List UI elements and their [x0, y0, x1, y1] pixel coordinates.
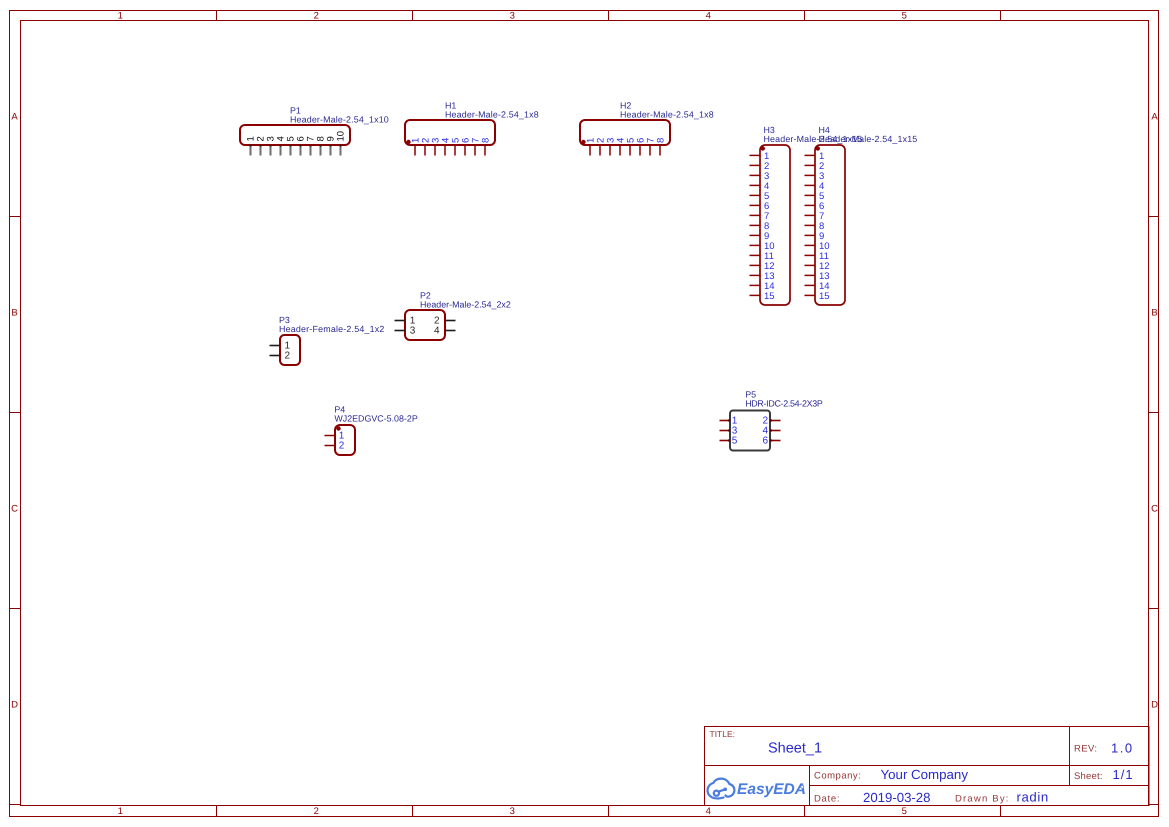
- pin 3 of H3: [750, 171, 770, 182]
- svg-text:C: C: [11, 504, 18, 515]
- svg-text:A: A: [11, 112, 18, 123]
- pin 1 of H4: [805, 151, 825, 162]
- pin 14 of H4: [805, 281, 830, 292]
- pin 10 of H3: [750, 241, 775, 252]
- pin 3 of H2: [605, 138, 616, 156]
- pin 9 of H3: [750, 231, 770, 242]
- pin 8 of H1: [480, 138, 491, 156]
- pin 8 of H4: [805, 221, 825, 232]
- pin 9 of H4: [805, 231, 825, 242]
- pin 2 of H2: [595, 138, 606, 156]
- pin 2 of H3: [750, 161, 770, 172]
- svg-text:15: 15: [764, 291, 775, 302]
- pin 7 of P1: [305, 136, 316, 155]
- pin 6 of P5: [762, 436, 780, 447]
- svg-text:WJ2EDGVC-5.08-2P: WJ2EDGVC-5.08-2P: [334, 414, 417, 424]
- pin 1 of H3: [750, 151, 770, 162]
- svg-text:4: 4: [706, 11, 711, 22]
- pin 1 of P4: [325, 431, 345, 442]
- svg-text:Header-Male-2.54_1x15: Header-Male-2.54_1x15: [819, 134, 918, 144]
- svg-text:Sheet:: Sheet:: [1074, 771, 1103, 782]
- connector H1 Header-Male-2.54_1x8: [405, 101, 539, 146]
- pin 6 of H4: [805, 201, 825, 212]
- svg-text:5: 5: [902, 806, 907, 817]
- svg-text:4: 4: [706, 806, 711, 817]
- pin 3 of H1: [430, 138, 441, 156]
- pin 9 of P1: [325, 136, 336, 155]
- connector P1 Header-Male-2.54_1x10: [240, 106, 389, 146]
- svg-text:4: 4: [434, 326, 440, 337]
- pin 2 of P1: [255, 136, 266, 155]
- pin 12 of H4: [805, 261, 830, 272]
- pin 4 of H2: [615, 138, 626, 156]
- pin 12 of H3: [750, 261, 775, 272]
- svg-text:3: 3: [410, 326, 416, 337]
- pin 8 of H2: [655, 138, 666, 156]
- svg-text:3: 3: [510, 11, 515, 22]
- pin 8 of P1: [315, 136, 326, 155]
- pin 5 of H3: [750, 191, 770, 202]
- pin 6 of H2: [635, 138, 646, 156]
- pin 5 of P5: [720, 436, 738, 447]
- connector H4 Header-Male-2.54_1x15: [815, 125, 917, 305]
- pin 13 of H4: [805, 271, 830, 282]
- svg-text:Sheet_1: Sheet_1: [768, 741, 822, 757]
- pin 5 of H4: [805, 191, 825, 202]
- pin 11 of H3: [750, 251, 774, 262]
- connector P5 HDR-IDC-2.54-2X3P: [730, 390, 823, 451]
- pin 3 of P2: [395, 326, 416, 337]
- title block: [705, 727, 1150, 806]
- svg-text:15: 15: [819, 291, 830, 302]
- svg-text:Header-Male-2.54_1x8: Header-Male-2.54_1x8: [620, 110, 714, 120]
- pin 1 of H2: [585, 138, 596, 156]
- pin 6 of H3: [750, 201, 770, 212]
- pin 13 of H3: [750, 271, 775, 282]
- svg-text:8: 8: [655, 138, 666, 143]
- svg-text:radin: radin: [1017, 790, 1049, 805]
- pin 7 of H4: [805, 211, 825, 222]
- svg-text:Date:: Date:: [814, 793, 840, 804]
- connector P4 WJ2EDGVC-5.08-2P: [334, 405, 417, 456]
- svg-text:TITLE:: TITLE:: [710, 729, 736, 739]
- connector P3 Header-Female-2.54_1x2: [279, 315, 385, 365]
- pin 2 of H4: [805, 161, 825, 172]
- svg-text:A: A: [1151, 112, 1158, 123]
- svg-text:Company:: Company:: [814, 770, 861, 781]
- pin 3 of H4: [805, 171, 825, 182]
- svg-text:Your Company: Your Company: [881, 767, 969, 782]
- pin 6 of H1: [460, 138, 471, 156]
- svg-text:EasyEDA: EasyEDA: [737, 781, 806, 798]
- pin 4 of P1: [275, 136, 286, 155]
- pin 1 of P2: [395, 316, 416, 327]
- pin 1 of P5: [720, 416, 738, 427]
- pin 4 of H4: [805, 181, 825, 192]
- pin 5 of H2: [625, 138, 636, 156]
- svg-text:B: B: [1151, 308, 1157, 319]
- pin 2 of H1: [420, 138, 431, 156]
- pin 15 of H3: [750, 291, 775, 302]
- svg-text:Header-Male-2.54_1x8: Header-Male-2.54_1x8: [445, 110, 539, 120]
- svg-text:1.0: 1.0: [1111, 740, 1134, 755]
- pin 1 of P3: [270, 341, 291, 352]
- svg-text:1: 1: [118, 11, 123, 22]
- svg-text:10: 10: [335, 131, 346, 142]
- svg-text:Header-Male-2.54_2x2: Header-Male-2.54_2x2: [420, 300, 511, 310]
- svg-text:2019-03-28: 2019-03-28: [863, 790, 930, 805]
- svg-text:Header-Female-2.54_1x2: Header-Female-2.54_1x2: [279, 324, 385, 334]
- pin 4 of H3: [750, 181, 770, 192]
- svg-text:C: C: [1151, 504, 1158, 515]
- svg-text:6: 6: [762, 436, 768, 447]
- svg-text:B: B: [11, 308, 17, 319]
- pin 1 of H1: [410, 138, 421, 156]
- pin 1 of P1: [245, 136, 256, 155]
- pin 4 of P5: [762, 426, 780, 437]
- svg-text:8: 8: [480, 138, 491, 143]
- EasyEDA logo: [708, 779, 735, 799]
- pin 3 of P5: [720, 426, 738, 437]
- svg-text:REV:: REV:: [1074, 744, 1097, 755]
- svg-text:D: D: [1151, 700, 1158, 711]
- pin 14 of H3: [750, 281, 775, 292]
- pin 15 of H4: [805, 291, 830, 302]
- pin 10 of P1: [335, 131, 346, 156]
- pin 5 of P1: [285, 136, 296, 155]
- svg-text:1/1: 1/1: [1113, 767, 1134, 782]
- pin 7 of H1: [470, 138, 481, 156]
- svg-text:2: 2: [285, 351, 291, 362]
- pin 7 of H2: [645, 138, 656, 156]
- pin 2 of P4: [325, 441, 345, 452]
- pin 7 of H3: [750, 211, 770, 222]
- svg-text:Drawn By:: Drawn By:: [955, 793, 1010, 804]
- pin 5 of H1: [450, 138, 461, 156]
- svg-text:2: 2: [314, 11, 319, 22]
- pin 3 of P1: [265, 136, 276, 155]
- pin 8 of H3: [750, 221, 770, 232]
- svg-text:HDR-IDC-2.54-2X3P: HDR-IDC-2.54-2X3P: [745, 399, 823, 409]
- pin 4 of P2: [434, 326, 456, 337]
- connector H2 Header-Male-2.54_1x8: [580, 101, 714, 146]
- pin 4 of H1: [440, 138, 451, 156]
- pin 2 of P3: [270, 351, 291, 362]
- svg-text:Header-Male-2.54_1x10: Header-Male-2.54_1x10: [290, 115, 389, 125]
- pin 6 of P1: [295, 136, 306, 155]
- svg-text:5: 5: [902, 11, 907, 22]
- svg-text:1: 1: [118, 806, 123, 817]
- pin 10 of H4: [805, 241, 830, 252]
- pin 11 of H4: [805, 251, 829, 262]
- connector P2 Header-Male-2.54_2x2: [405, 291, 511, 341]
- svg-text:2: 2: [314, 806, 319, 817]
- pin 2 of P5: [762, 416, 780, 427]
- pin 2 of P2: [434, 316, 456, 327]
- svg-text:D: D: [11, 700, 18, 711]
- svg-text:5: 5: [732, 436, 738, 447]
- svg-text:3: 3: [510, 806, 515, 817]
- connector H3 Header-Male-2.54_1x15: [760, 125, 862, 305]
- svg-text:2: 2: [339, 441, 345, 452]
